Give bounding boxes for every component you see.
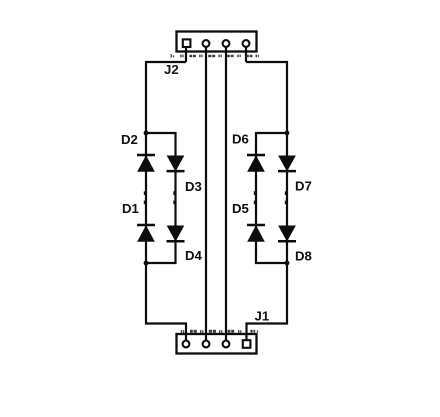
svg-text:D8: D8 bbox=[295, 249, 312, 264]
svg-text:D6: D6 bbox=[232, 132, 249, 147]
svg-text:D3: D3 bbox=[185, 179, 202, 194]
svg-text:D4: D4 bbox=[185, 248, 203, 263]
svg-text:J1: J1 bbox=[255, 309, 270, 324]
svg-text:D1: D1 bbox=[122, 201, 139, 216]
svg-text:D2: D2 bbox=[121, 132, 138, 147]
svg-text:J2: J2 bbox=[164, 62, 179, 77]
svg-text:D5: D5 bbox=[232, 201, 249, 216]
svg-text:D7: D7 bbox=[295, 179, 312, 194]
